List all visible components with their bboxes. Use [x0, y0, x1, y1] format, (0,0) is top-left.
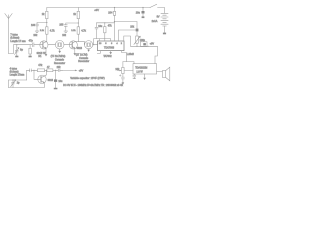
transistor Q2	[69, 41, 78, 53]
svg-text:4: 4	[116, 43, 118, 45]
node N5	[78, 41, 79, 42]
IC output pin wire	[122, 51, 127, 62]
capacitor C12 blob	[136, 29, 139, 32]
wire IC pin to tuning node	[119, 30, 138, 41]
node N13b	[136, 46, 137, 47]
antenna ANT1	[5, 14, 12, 54]
terminal arrow to supply	[63, 70, 78, 72]
ground G10	[122, 82, 125, 84]
capacitor C7	[119, 75, 124, 83]
svg-text:+9V: +9V	[150, 43, 155, 46]
svg-text:1k: 1k	[42, 13, 45, 16]
svg-text:13: 13	[99, 43, 102, 45]
node N10	[142, 7, 143, 8]
ground G11 amp	[143, 74, 146, 80]
node N9	[114, 21, 115, 22]
svg-text:2: 2	[121, 43, 123, 45]
svg-text:47k: 47k	[108, 26, 113, 28]
svg-text:1k: 1k	[73, 13, 76, 16]
ground G2	[29, 56, 32, 58]
ground G13	[35, 31, 39, 32]
svg-text:Variable capacitor : 2P4F (270: Variable capacitor : 2P4F (270P)	[70, 77, 105, 80]
svg-text:10u: 10u	[58, 80, 63, 83]
wire h2 into IC pins	[94, 39, 111, 45]
svg-text:102: 102	[33, 35, 38, 37]
capacitor C2 with tap wire	[36, 23, 47, 31]
ceramic resonator CF2	[85, 41, 93, 50]
node N15	[46, 70, 47, 71]
wire osc feedback	[26, 70, 28, 80]
ground G5 emitter arrow	[74, 53, 77, 55]
svg-text:Length 17mm: Length 17mm	[10, 74, 25, 77]
capacitor C8	[27, 69, 38, 72]
svg-text:TDA2822M: TDA2822M	[135, 67, 147, 70]
capacitor C4 drop	[95, 23, 98, 39]
node N14	[33, 70, 34, 71]
ground G9 battery	[163, 33, 166, 35]
svg-text:1.8 W: 1.8 W	[136, 71, 143, 74]
svg-text:1.25uH: 1.25uH	[127, 54, 135, 56]
jack box B2	[140, 42, 147, 47]
svg-text:Length 17 mm: Length 17 mm	[10, 40, 25, 43]
svg-text:DC 3V 87.5 - 108MHz IF=10.: DC 3V 87.5 - 108MHz IF=10.7MHz TR : 2SC9…	[63, 84, 123, 87]
battery BT1	[161, 13, 168, 32]
svg-text:10u: 10u	[98, 26, 103, 28]
variable capacitor VC1	[15, 45, 19, 56]
wire Q2 collector to CF2	[78, 41, 84, 44]
resistor R4	[77, 8, 79, 27]
wire audio supply	[131, 45, 158, 47]
IC left pin stub	[97, 51, 100, 54]
svg-text:R1: R1	[38, 55, 42, 58]
ground G12	[54, 88, 58, 90]
svg-text:9: 9	[105, 43, 107, 45]
resistor R6 drop	[104, 23, 106, 39]
svg-text:9018: 9018	[48, 79, 54, 82]
wire base line	[14, 44, 33, 46]
ground G4	[58, 51, 61, 53]
svg-text:9p: 9p	[20, 48, 23, 52]
svg-text:4.7k: 4.7k	[50, 30, 55, 33]
svg-text:9018: 9018	[77, 47, 83, 50]
supply rail VCC	[47, 7, 150, 9]
resistor R7	[37, 69, 47, 72]
ground G6	[87, 50, 90, 52]
decoupling capacitor C6	[142, 8, 145, 17]
svg-text:2.2k: 2.2k	[40, 30, 45, 32]
node A	[16, 44, 17, 45]
svg-text:9V: 9V	[157, 15, 160, 18]
ground G8	[142, 16, 145, 18]
svg-text:4.7k: 4.7k	[81, 30, 86, 33]
wire to amp box	[155, 46, 157, 63]
potentiometer VR1	[134, 22, 140, 47]
volume pot VR2	[117, 62, 134, 77]
svg-text:2p: 2p	[17, 82, 20, 85]
node N7	[93, 44, 94, 45]
ground G3 emitter arrow	[45, 54, 48, 56]
oscillator coil L2 wires	[9, 80, 27, 88]
wire h3 right	[115, 21, 138, 23]
resistor R8	[47, 69, 58, 72]
resistor R1	[46, 8, 48, 27]
svg-text:Resonator: Resonator	[54, 62, 65, 65]
svg-text:103: 103	[31, 24, 36, 27]
variable capacitor VC2	[11, 80, 16, 88]
node N4	[78, 22, 79, 23]
transistor Q3	[34, 70, 46, 87]
node N8	[114, 7, 115, 8]
capacitor C1	[32, 43, 42, 47]
ceramic resonator CF1	[55, 40, 64, 51]
wire IC pin corner	[124, 36, 131, 46]
wire h1 tap	[97, 22, 115, 24]
svg-text:102: 102	[62, 35, 67, 37]
capacitor C11 amp bypass	[133, 74, 136, 79]
svg-text:TDA7088: TDA7088	[104, 46, 115, 49]
ground G1	[15, 56, 18, 58]
svg-text:+9V: +9V	[79, 69, 84, 72]
audio amp A1 box	[133, 64, 157, 74]
wire CF1 to Q2	[64, 44, 72, 46]
svg-text:10k: 10k	[130, 25, 135, 28]
node N11	[147, 46, 148, 47]
svg-text:Resonator: Resonator	[78, 60, 89, 63]
resistor R9 supply drop	[113, 8, 115, 42]
node N6	[104, 22, 105, 23]
node N1	[46, 22, 47, 23]
node N13	[12, 79, 13, 80]
capacitor C3 with tap wire	[64, 23, 78, 31]
resistor R5	[77, 27, 79, 42]
svg-text:6: 6	[111, 43, 113, 45]
switch SW1	[150, 4, 157, 7]
wire Q1 to CF1	[48, 44, 55, 46]
coil L1 loop	[9, 45, 14, 54]
svg-text:47p: 47p	[29, 40, 34, 43]
capacitor C9	[58, 69, 62, 72]
bottom rail wire	[9, 87, 45, 89]
svg-text:47k: 47k	[38, 64, 43, 67]
IC U1 TA7642	[98, 41, 125, 51]
resistor R2	[46, 27, 48, 41]
transistor Q1	[40, 41, 48, 54]
node N16	[55, 70, 56, 71]
speaker LS1	[157, 67, 170, 81]
capacitor C10 electrolytic	[54, 70, 57, 88]
svg-text:2.2k: 2.2k	[71, 30, 76, 32]
resistor R3	[29, 45, 31, 56]
wire CF2 to IC	[93, 44, 98, 46]
svg-text:10u: 10u	[136, 11, 141, 14]
svg-text:22k: 22k	[57, 66, 62, 69]
wire pot wiper to amp	[124, 70, 133, 72]
svg-text:2xAA: 2xAA	[152, 20, 158, 23]
ground G14	[64, 31, 68, 32]
svg-text:+9V: +9V	[94, 8, 99, 12]
svg-text:TA7642: TA7642	[103, 55, 112, 58]
svg-text:103: 103	[59, 23, 64, 26]
svg-text:104: 104	[108, 12, 113, 15]
ground G7 IC pin	[109, 51, 112, 55]
